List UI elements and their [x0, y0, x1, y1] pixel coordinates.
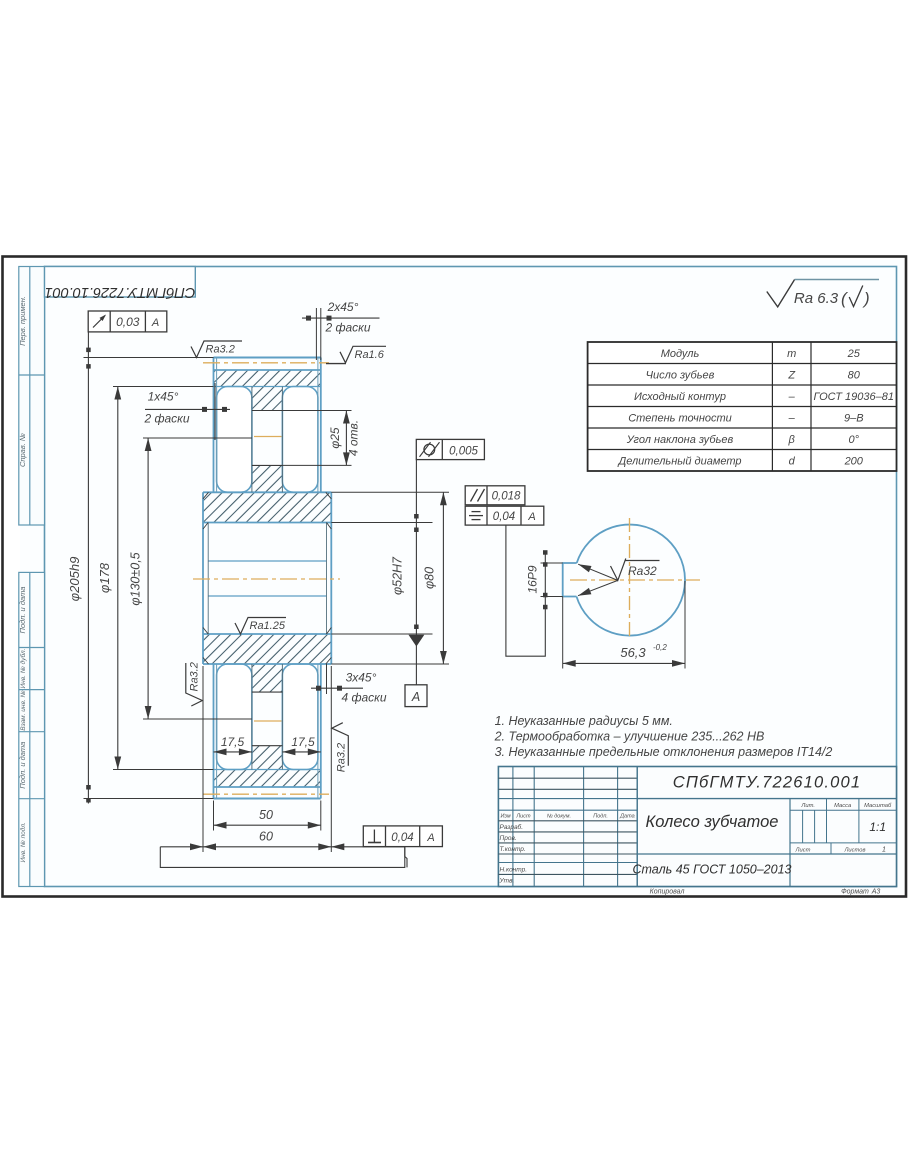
- roughness Ra3.2 top: [191, 341, 242, 358]
- list row: [790, 842, 897, 844]
- gear hatching rim bottom: [214, 770, 321, 788]
- bore line bottom: [203, 633, 331, 635]
- hub bottom line: [203, 663, 331, 665]
- ext line OD top: [84, 357, 214, 359]
- hole bottom edge lines: [252, 691, 283, 693]
- svg-text:Подп.: Подп.: [593, 814, 608, 820]
- svg-text:Число зубьев: Число зубьев: [646, 369, 715, 381]
- dim phi25 line: [345, 411, 347, 466]
- rim face right: [320, 358, 322, 493]
- root line bottom: [214, 786, 321, 788]
- svg-text:Исходный контур: Исходный контур: [634, 391, 726, 403]
- datum bracket rectangle: [160, 847, 404, 868]
- ext line bore bottom right: [331, 633, 432, 635]
- svg-text:Утв.: Утв.: [499, 878, 515, 885]
- rim inner line top: [214, 386, 321, 388]
- svg-text:Сталь 45 ГОСТ 1050–2013: Сталь 45 ГОСТ 1050–2013: [633, 863, 792, 877]
- hole axis bottom: [254, 720, 282, 722]
- svg-text:80: 80: [848, 369, 861, 381]
- svg-text:Угол наклона зубьев: Угол наклона зубьев: [626, 434, 734, 446]
- svg-text:φ25: φ25: [328, 427, 342, 449]
- ext line hub top right: [331, 491, 449, 493]
- dim 16P9 dots: [543, 550, 548, 555]
- dim phi130 line: [147, 438, 149, 719]
- dim phi52H7 line with datum leader: [415, 460, 417, 685]
- svg-text:Колесо зубчатое: Колесо зубчатое: [646, 813, 779, 831]
- recess pocket top right: [282, 387, 318, 493]
- dim 16P9 ext lines: [541, 562, 563, 564]
- keyway view bore circle: [577, 525, 686, 636]
- svg-text:Ra1.25: Ra1.25: [250, 620, 286, 632]
- svg-text:Разраб.: Разраб.: [500, 823, 524, 831]
- svg-text:СПбГМТУ.722610.001: СПбГМТУ.722610.001: [673, 774, 862, 792]
- tooth tip line top: [214, 357, 321, 359]
- svg-text:Взам. инв. №: Взам. инв. №: [20, 690, 27, 730]
- svg-text:3х45°: 3х45°: [346, 671, 377, 685]
- svg-text:25: 25: [847, 348, 861, 360]
- svg-text:0,005: 0,005: [449, 446, 478, 458]
- ext line hole center bottom: [143, 718, 252, 720]
- title block outer: [498, 767, 896, 887]
- svg-text:Степень точности: Степень точности: [628, 412, 732, 424]
- svg-text:φ130±0,5: φ130±0,5: [129, 552, 143, 605]
- keyway Ra32 mark: [611, 559, 626, 581]
- svg-text:–: –: [788, 391, 796, 403]
- web face left: [251, 387, 253, 493]
- keyway view centerline vertical: [629, 518, 631, 638]
- keyway line lower: [208, 595, 326, 597]
- dim 56.3 ext lines: [562, 597, 564, 669]
- svg-text:φ205h9: φ205h9: [67, 557, 82, 602]
- datum A box: [405, 685, 427, 707]
- svg-text:Перв. примен.: Перв. примен.: [18, 296, 27, 346]
- svg-text:Ra3.2: Ra3.2: [206, 344, 235, 356]
- chamfer dim 2x45 line: [302, 317, 380, 319]
- bore chamfer vertical left: [207, 523, 209, 635]
- bore chamfer vertical right: [326, 523, 328, 635]
- ext lines 60 dim: [202, 666, 204, 852]
- pitch centerline bottom: [203, 793, 329, 795]
- svg-text:Масштаб: Масштаб: [864, 803, 892, 809]
- svg-text:50: 50: [259, 808, 273, 822]
- lit subcells: [802, 810, 804, 843]
- svg-text:Лист: Лист: [515, 814, 531, 820]
- svg-text:Ra1.6: Ra1.6: [355, 349, 385, 361]
- leader perp frame: [405, 847, 407, 868]
- gear hatching hub top: [203, 492, 331, 522]
- symmetry frame 0.04 A: [465, 506, 544, 525]
- margin column group 2: [19, 572, 45, 886]
- rim face left: [213, 358, 215, 493]
- pitch centerline top: [203, 362, 329, 364]
- svg-text:1х45°: 1х45°: [148, 390, 179, 404]
- roughness Ra1.6: [340, 346, 386, 363]
- svg-text:φ52Н7: φ52Н7: [391, 556, 405, 595]
- datum triangle: [409, 635, 425, 647]
- svg-text:Инв. № подл.: Инв. № подл.: [19, 822, 27, 863]
- keyway line upper: [208, 560, 326, 562]
- dim 17.5 left: [214, 751, 252, 753]
- svg-text:2х45°: 2х45°: [327, 300, 359, 314]
- hub top line: [203, 491, 331, 493]
- svg-text:1:1: 1:1: [869, 820, 886, 834]
- recess pocket bottom left: [217, 664, 252, 770]
- svg-text:Пров.: Пров.: [500, 835, 517, 842]
- bore line top: [203, 522, 331, 524]
- svg-text:А: А: [527, 511, 535, 523]
- chamfer dim 1x45 line: [145, 408, 230, 410]
- svg-text:А: А: [411, 690, 420, 704]
- runout tolerance frame 0.03 A: [88, 311, 167, 332]
- svg-text:А3: А3: [871, 889, 881, 896]
- lit massa masshtab row: [790, 809, 897, 811]
- svg-text:β: β: [788, 434, 796, 446]
- keyway Ra32 leader arrows: [578, 564, 618, 580]
- svg-text:Ra3.2: Ra3.2: [188, 662, 200, 691]
- svg-text:–: –: [788, 412, 796, 424]
- parameters table: [588, 342, 897, 471]
- roughness Ra3.2 right rotated: [332, 723, 349, 766]
- svg-text:Подп. и дата: Подп. и дата: [18, 587, 27, 634]
- svg-text:2 фаски: 2 фаски: [324, 321, 370, 335]
- gear hatching rim top: [214, 370, 321, 387]
- hub corner chamfers: [203, 492, 209, 499]
- svg-text:Делительный диаметр: Делительный диаметр: [616, 455, 741, 467]
- svg-text:17,5: 17,5: [291, 735, 315, 749]
- keyway view centerline horizontal: [570, 579, 700, 581]
- cylindricity frame 0.005: [416, 439, 484, 459]
- root line top: [214, 369, 321, 371]
- dim phi178 line: [117, 387, 119, 770]
- svg-text:№ докум.: № докум.: [547, 814, 571, 820]
- keyway slot: [563, 563, 577, 597]
- margin column group 1: [19, 267, 45, 526]
- chamfer 3x45 ext line: [326, 664, 328, 694]
- svg-text:9–В: 9–В: [844, 412, 864, 424]
- ext line rim inner top: [113, 386, 214, 388]
- dim 56.3 line: [563, 662, 685, 664]
- tooth tip line bottom: [214, 798, 321, 800]
- dim 60 line: [160, 846, 404, 848]
- svg-text:1: 1: [882, 847, 886, 854]
- dim phi80 line: [442, 492, 444, 664]
- svg-text:16Р9: 16Р9: [526, 565, 540, 593]
- svg-text:Ra3.2: Ra3.2: [336, 743, 348, 772]
- gear hatching web bottom: [252, 664, 283, 692]
- hub face right: [330, 492, 332, 664]
- ext lines hole top: [282, 410, 351, 412]
- svg-text:Н.контр.: Н.контр.: [500, 867, 528, 874]
- title block verticals left part: [512, 767, 514, 887]
- chamfer dim 3x45 line: [311, 687, 363, 689]
- ext line rim inner bottom: [113, 769, 214, 771]
- gear hatching hub bottom: [203, 634, 331, 664]
- svg-text:СПбГМТУ.7226.10.001: СПбГМТУ.7226.10.001: [45, 284, 196, 300]
- svg-text:-0,2: -0,2: [653, 643, 667, 652]
- svg-text:Масса: Масса: [834, 803, 852, 809]
- svg-text:Ra32: Ra32: [628, 564, 657, 578]
- svg-text:d: d: [789, 455, 796, 467]
- roughness Ra1.25: [235, 618, 286, 635]
- svg-text:φ178: φ178: [97, 562, 112, 593]
- svg-text:): ): [862, 289, 870, 308]
- svg-text:60: 60: [259, 830, 273, 844]
- svg-text:0°: 0°: [848, 434, 859, 446]
- svg-text:Изм: Изм: [500, 814, 510, 820]
- svg-text:Лит.: Лит.: [800, 803, 815, 809]
- rim chamfer line left: [216, 358, 218, 493]
- leader from symmetry frame: [506, 525, 545, 656]
- parallelism frame 0.018: [465, 486, 525, 505]
- drawing frame: [45, 267, 897, 887]
- svg-text:200: 200: [844, 455, 864, 467]
- svg-text:0,04: 0,04: [391, 832, 413, 844]
- ext lines 50 dim: [213, 801, 215, 831]
- svg-text:0,03: 0,03: [116, 315, 140, 329]
- chamfer 2x45 ext lines: [315, 308, 317, 360]
- hole top edge lines: [252, 410, 283, 412]
- svg-text:Формат: Формат: [841, 889, 869, 896]
- svg-text:4 отв.: 4 отв.: [347, 420, 361, 456]
- perpendicularity frame 0.04 A: [363, 826, 442, 847]
- hole axis top: [254, 436, 282, 438]
- hub face left: [202, 492, 204, 664]
- svg-text:Справ. №: Справ. №: [18, 433, 27, 467]
- ext line hub bottom right: [331, 663, 449, 665]
- chamfer ext line left: [214, 383, 216, 440]
- svg-text:1. Неуказанные радиусы 5 мм.: 1. Неуказанные радиусы 5 мм.: [495, 714, 673, 728]
- rim chamfer line right: [317, 358, 319, 493]
- title block horizontals left part: [498, 777, 637, 779]
- svg-text:Z: Z: [787, 369, 796, 381]
- svg-text:3. Неуказанные предельные откл: 3. Неуказанные предельные отклонения раз…: [495, 745, 833, 759]
- svg-text:4 фаски: 4 фаски: [341, 691, 386, 705]
- svg-text:2. Термообработка – улучшение: 2. Термообработка – улучшение 235...262 …: [494, 730, 765, 744]
- svg-text:Ra 6.3: Ra 6.3: [794, 290, 839, 307]
- title designation cell: [636, 767, 638, 887]
- svg-text:φ80: φ80: [423, 567, 437, 589]
- dim phi205h9 line: [87, 332, 89, 803]
- gear hatching web top: [252, 387, 283, 411]
- part name cell: [637, 853, 896, 855]
- rim inner line bottom: [214, 769, 321, 771]
- svg-text:0,018: 0,018: [492, 491, 521, 503]
- svg-text:Инв. № дубл.: Инв. № дубл.: [19, 648, 27, 688]
- svg-text:0,04: 0,04: [493, 511, 515, 523]
- svg-text:Модуль: Модуль: [661, 348, 700, 360]
- bore corner chamfers: [203, 523, 208, 530]
- svg-text:56,3: 56,3: [620, 645, 646, 660]
- sheet outer border: [3, 257, 907, 897]
- ext line OD bottom: [84, 798, 214, 800]
- svg-text:А: А: [151, 317, 159, 329]
- svg-text:Подп. и дата: Подп. и дата: [18, 742, 27, 789]
- web face right: [281, 387, 283, 493]
- rotated designation box: [45, 267, 196, 298]
- gear axis centerline: [193, 578, 340, 580]
- svg-text:Лист: Лист: [795, 848, 811, 854]
- svg-text:Листов: Листов: [843, 848, 865, 854]
- svg-text:m: m: [787, 348, 796, 360]
- ext line bore top right: [331, 522, 432, 524]
- svg-text:2 фаски: 2 фаски: [143, 412, 189, 426]
- general roughness Ra6.3: [767, 280, 795, 307]
- svg-text:Т.контр.: Т.контр.: [500, 846, 526, 853]
- ext line hole center top: [143, 437, 252, 439]
- dim 50 line: [214, 824, 321, 826]
- roughness Ra3.2 left rotated: [186, 662, 203, 706]
- svg-text:А: А: [426, 832, 434, 844]
- svg-text:ГОСТ 19036–81: ГОСТ 19036–81: [814, 391, 894, 403]
- svg-text:17,5: 17,5: [221, 735, 245, 749]
- dim 17.5 right: [282, 751, 320, 753]
- svg-text:Копировал: Копировал: [650, 889, 685, 896]
- recess pocket top left: [217, 387, 252, 493]
- svg-text:Дата: Дата: [619, 814, 635, 820]
- recess pocket bottom right: [282, 664, 318, 770]
